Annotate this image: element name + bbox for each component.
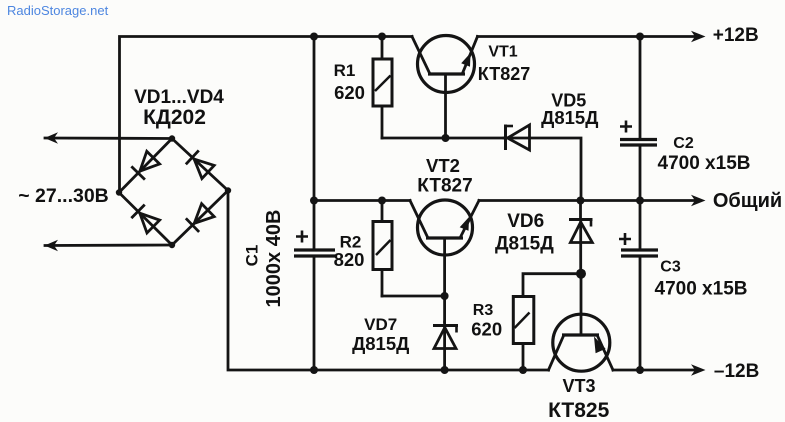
wire AC input upper — [45, 137, 172, 140]
svg-text:1000x 40В: 1000x 40В — [263, 210, 285, 308]
diode VD3 (bottom-left edge, points to left corner) — [131, 205, 160, 234]
wire bridge minus corner down to bottom rail — [228, 191, 549, 371]
zener diode VD6 top lead — [579, 201, 582, 220]
transistor VT1 base bar — [428, 72, 465, 75]
resistor R3 bottom lead — [522, 344, 525, 371]
svg-text:+12В: +12В — [713, 25, 759, 46]
svg-text:КД202: КД202 — [143, 106, 206, 129]
capacitor C2 bottom lead — [639, 145, 642, 201]
transistor VT3 emitter lead — [598, 337, 613, 370]
svg-text:C1: C1 — [243, 245, 262, 267]
node junction bottom rail / C3 — [636, 366, 644, 374]
svg-text:4700 x15В: 4700 x15В — [658, 153, 751, 174]
svg-text:R3: R3 — [473, 302, 494, 319]
wire top rail left (unregulated +) — [120, 37, 413, 194]
diode VD4 (bottom-right edge, points to bottom corner) — [186, 203, 215, 232]
zener diode VD5 cathode bar — [504, 125, 507, 151]
bridge rectifier VD1...VD4 diamond edges — [119, 139, 228, 246]
svg-text:КТ827: КТ827 — [417, 176, 472, 197]
zener VD5 wing — [506, 125, 514, 128]
svg-text:Д815Д: Д815Д — [352, 333, 409, 354]
svg-text:C3: C3 — [660, 259, 681, 276]
transistor VT2 base lead — [443, 238, 446, 322]
node bridge bottom corner — [169, 242, 175, 248]
arrow AC upper — [45, 132, 59, 144]
node junction bottom rail / R3 — [519, 366, 527, 374]
wire riser from top rail to mid rail (x=314) — [313, 37, 316, 201]
node junction VD6 / R3 / VT3 base — [576, 269, 586, 279]
zener VD7 wing — [455, 326, 458, 333]
transistor VT3 circle — [553, 314, 610, 371]
node junction top rail / C2 — [636, 33, 644, 41]
svg-text:Д815Д: Д815Д — [541, 107, 598, 128]
transistor VT2 collector lead — [410, 201, 427, 237]
transistor VT1 circle — [418, 36, 475, 93]
diode VD1 (top-left edge, points to left corner) — [131, 151, 160, 180]
capacitor C3 plus sign — [619, 233, 631, 245]
wire R1 bottom to VD5 (VT1 base net) — [382, 137, 504, 140]
svg-text:Д815Д: Д815Д — [495, 234, 554, 255]
capacitor C3 bottom lead — [639, 256, 642, 370]
zener VD6 wing — [590, 220, 593, 227]
wire mid rail right segment to Obshchiy — [479, 199, 695, 202]
resistor R3 body — [513, 297, 534, 344]
zener VD7 triangle — [434, 328, 456, 349]
node junction mid rail / R2 — [378, 197, 386, 205]
node junction mid rail / VD6 — [577, 197, 585, 205]
node bridge top corner — [169, 135, 175, 141]
svg-text:КТ827: КТ827 — [478, 64, 530, 84]
svg-text:VT3: VT3 — [562, 376, 595, 396]
zener VD7 bottom lead — [443, 322, 446, 370]
arrow -12V output — [691, 364, 706, 376]
wire bottom rail right of VT3 to -12V — [613, 369, 695, 372]
node junction bottom rail / C1 — [310, 366, 318, 374]
svg-text:620: 620 — [334, 82, 365, 103]
svg-text:620: 620 — [471, 319, 502, 340]
wire VD5 to corner x581 — [504, 138, 581, 201]
capacitor C1 bottom lead — [313, 256, 316, 370]
transistor VT3 base bar — [562, 333, 599, 336]
svg-text:VD7: VD7 — [364, 315, 397, 334]
svg-text:4700 x15В: 4700 x15В — [655, 279, 748, 300]
arrow common output — [691, 195, 706, 206]
zener diode VD7 cathode bar — [433, 324, 458, 327]
node junction bottom rail / VD7 — [441, 366, 449, 374]
arrow +12V output — [691, 31, 706, 42]
node bridge right corner (-) — [225, 187, 231, 193]
capacitor C1 plus sign — [296, 231, 308, 243]
zener VD6 bottom lead — [579, 220, 582, 274]
svg-text:820: 820 — [334, 249, 365, 270]
transistor VT1 emitter arrow — [461, 53, 470, 67]
transistor VT2 emitter arrow — [460, 217, 469, 231]
transistor VT2 emitter lead — [461, 201, 479, 237]
transistor VT3 emitter arrow (PNP, points to base) — [594, 337, 606, 354]
wire R2 bottom to VT2 base line — [382, 295, 445, 298]
resistor R1 leads — [381, 37, 384, 60]
node junction mid rail / C2 C3 — [636, 197, 644, 205]
svg-text:КТ825: КТ825 — [548, 399, 610, 422]
svg-text:VD6: VD6 — [507, 211, 544, 232]
svg-text:C2: C2 — [673, 135, 694, 152]
svg-text:~ 27...30В: ~ 27...30В — [18, 185, 109, 207]
svg-text:VT1: VT1 — [488, 44, 517, 61]
transistor VT1 base lead — [444, 74, 447, 138]
capacitor C2 plates — [620, 138, 657, 141]
wire top rail right to +12V — [478, 35, 696, 38]
transistor VT3 collector lead — [549, 337, 564, 370]
transistor VT3 base lead — [580, 274, 583, 335]
capacitor C1 top lead — [313, 201, 316, 250]
resistor R2 leads — [381, 201, 384, 222]
wire AC input lower — [45, 244, 172, 247]
svg-text:R1: R1 — [334, 61, 356, 80]
zener VD6 triangle — [570, 222, 592, 243]
zener VD6 cathode bar — [569, 218, 593, 221]
arrow AC lower — [45, 240, 59, 251]
transistor VT1 emitter lead — [463, 37, 478, 73]
svg-text:Общий: Общий — [713, 190, 782, 212]
zener VD5 triangle — [508, 125, 530, 150]
transistor VT2 base bar — [426, 236, 463, 239]
node junction top rail / C1 riser — [310, 33, 318, 41]
node junction top rail / R1 — [378, 33, 386, 41]
node junction VT1 base — [442, 134, 450, 142]
capacitor C3 plates — [621, 248, 658, 251]
transistor VT1 collector lead — [412, 37, 429, 73]
resistor R1 body — [373, 59, 392, 106]
capacitor C2 plus sign — [620, 121, 632, 133]
wire mid rail left segment — [314, 199, 410, 202]
capacitor C2 top lead — [639, 37, 642, 140]
svg-text:VT2: VT2 — [426, 155, 460, 176]
node junction mid rail / C1 — [310, 197, 318, 205]
diode VD2 (top-right edge, points to top corner) — [186, 150, 215, 179]
node bridge left corner (+) — [116, 189, 122, 195]
svg-text:VD1...VD4: VD1...VD4 — [134, 87, 224, 108]
transistor VT2 circle — [418, 200, 473, 255]
svg-text:–12В: –12В — [714, 361, 759, 382]
node junction VT2 base / R2 — [441, 292, 449, 300]
capacitor C1 plates — [294, 248, 335, 251]
capacitor C3 top lead — [639, 201, 642, 250]
svg-text:RadioStorage.net: RadioStorage.net — [7, 3, 109, 18]
resistor R2 body — [373, 222, 392, 270]
wire junction to R3 — [523, 274, 581, 297]
